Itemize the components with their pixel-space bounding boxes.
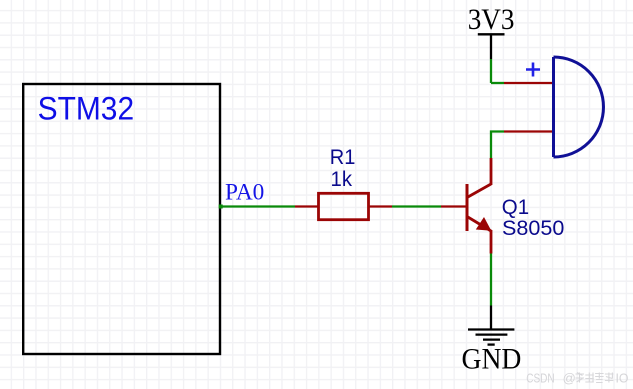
- wire PA0 to R1: [220, 205, 295, 207]
- wire R1 to Q1 base: [392, 205, 441, 207]
- svg-text:@: @: [563, 371, 576, 386]
- transistor Q1 base bar: [466, 184, 469, 231]
- ground bar 1: [468, 328, 514, 330]
- svg-text:R1: R1: [330, 145, 356, 169]
- power bar: [478, 33, 505, 35]
- svg-text:IO: IO: [616, 371, 629, 386]
- transistor Q1 emitter pin: [490, 230, 493, 254]
- svg-text:STM32: STM32: [38, 91, 135, 127]
- transistor Q1 emitter diagonal: [467, 217, 491, 232]
- wire emitter to ground: [490, 254, 492, 306]
- wire buzzer to collector: [491, 132, 504, 159]
- buzzer pin +: [504, 82, 553, 84]
- node pin dot PA0: [219, 205, 223, 209]
- ground bar 2: [476, 333, 508, 335]
- transistor Q1 collector pin: [490, 158, 493, 185]
- svg-text:CSDN: CSDN: [526, 371, 555, 386]
- watermark glyph 冰: [576, 373, 585, 383]
- transistor Q1 emitter arrow: [476, 217, 492, 231]
- svg-text:3V3: 3V3: [468, 3, 515, 36]
- svg-text:1k: 1k: [331, 167, 353, 191]
- wire 3V3 down: [490, 59, 492, 83]
- svg-text:GND: GND: [462, 343, 522, 376]
- buzzer LS1 body dome: [554, 57, 604, 157]
- buzzer pin -: [504, 130, 553, 132]
- plus sign: [526, 63, 540, 77]
- pin left of R1: [295, 205, 318, 207]
- watermark glyph 梨: [605, 373, 614, 383]
- transistor Q1 collector diagonal: [467, 184, 491, 198]
- watermark glyph 糖: [585, 373, 594, 383]
- svg-text:PA0: PA0: [225, 179, 264, 204]
- ground bar 3: [483, 338, 500, 340]
- wire corner to buzzer plus: [491, 82, 504, 84]
- pin right of R1: [369, 205, 392, 207]
- power stem: [490, 34, 492, 59]
- ground bar 4: [488, 343, 495, 345]
- watermark glyph 雪: [595, 373, 604, 383]
- pin base Q1: [441, 205, 466, 207]
- resistor R1: [319, 193, 369, 219]
- IC box STM32: [23, 84, 220, 354]
- svg-text:S8050: S8050: [502, 216, 564, 240]
- ground stem: [490, 306, 492, 330]
- buzzer LS1 body flat: [552, 57, 555, 157]
